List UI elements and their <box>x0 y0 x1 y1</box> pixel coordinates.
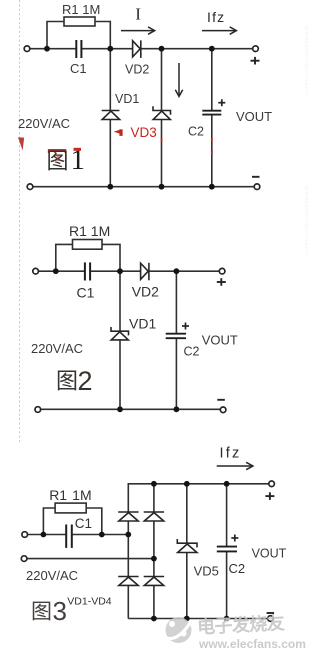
svg-text:VD2: VD2 <box>125 63 149 77</box>
plus polarity mark C2 (ckt3) <box>231 535 238 542</box>
svg-text:C2: C2 <box>184 345 200 359</box>
svg-text:www.elecfans.com: www.elecfans.com <box>303 184 308 255</box>
wire: R1 left riser (ckt3) <box>43 508 55 535</box>
electrolytic capacitor C2 (ckt2) <box>166 334 186 339</box>
electrolytic capacitor C2 (ckt1) <box>202 111 221 115</box>
svg-text:C1: C1 <box>70 61 87 76</box>
wire: ckt2 VD2 to + terminal <box>149 270 220 272</box>
svg-text:Ifz: Ifz <box>220 446 240 462</box>
svg-text:R1 1M: R1 1M <box>69 223 110 239</box>
wire: bridge right column top <box>153 484 155 512</box>
wire: ckt1 top line from left AC terminal to C1 <box>30 48 77 50</box>
wire: C2 branch vertical (ckt3) <box>226 484 228 546</box>
minus label at - output (ckt3) <box>267 612 275 614</box>
bridge diode lower-right (VD4) <box>144 577 164 586</box>
resistor R1 (ckt1) box <box>64 17 95 26</box>
svg-text:VD1-VD4: VD1-VD4 <box>67 596 112 608</box>
wire: ckt1 top line from C1 to VD2 anode <box>81 48 133 50</box>
diode VD1 (ckt1) shunt <box>102 111 120 120</box>
wire: R1 right riser <box>95 22 110 49</box>
plus polarity mark C2 (ckt1) <box>218 99 225 106</box>
svg-text:VD1: VD1 <box>129 316 156 332</box>
plus polarity mark C2 (ckt2) <box>182 323 189 330</box>
zener diode VD5 (ckt3) <box>177 539 197 553</box>
AC input terminal bottom-left (ckt2) <box>35 407 41 413</box>
svg-text:VD5: VD5 <box>194 564 219 579</box>
output terminal + (ckt2) <box>219 268 225 274</box>
downward current arrow between VD2 and C2 (ckt1) <box>175 63 182 96</box>
output terminal - (ckt2) <box>220 407 226 413</box>
wire: R1 left riser (ckt2) <box>56 244 73 271</box>
AC input terminal upper-left (ckt3) <box>22 532 28 538</box>
node dots ckt3 <box>41 481 230 621</box>
output terminal + (ckt1) <box>253 46 259 52</box>
capacitor C1 (ckt3) plates <box>66 525 72 548</box>
plus label at + output (ckt3) <box>265 492 274 500</box>
svg-text:VOUT: VOUT <box>236 109 272 124</box>
zener diode VD3 (ckt1) <box>153 106 171 119</box>
wire: VD5 branch vertical (ckt3) <box>186 484 188 543</box>
svg-text:www.elecfans.com: www.elecfans.com <box>198 637 306 651</box>
svg-text:C2: C2 <box>188 125 204 139</box>
bridge diode upper-right (VD2) <box>144 512 164 521</box>
AC input terminal top-left (ckt1) <box>24 46 30 52</box>
red specks on wires (ckt1) <box>161 138 213 154</box>
red pointer arrow before VD3 label <box>114 129 123 136</box>
wire: ckt2 C1 to VD2 <box>91 270 141 272</box>
svg-text:C1: C1 <box>77 285 95 301</box>
wire: ckt2 bottom rail <box>40 408 221 410</box>
resistor R1 (ckt2) box <box>73 240 103 250</box>
wire: ckt3 minus rail <box>128 618 268 620</box>
node dots ckt1 bottom rail <box>107 184 113 190</box>
svg-text:图: 图 <box>56 369 78 394</box>
AC input terminal bottom-left (ckt1) <box>27 184 33 190</box>
svg-text:R1 1M: R1 1M <box>49 487 91 503</box>
diode VD2 (ckt2) series rectifier <box>141 263 149 281</box>
wire: R1 right riser (ckt2) <box>102 244 120 271</box>
svg-text:220V/AC: 220V/AC <box>26 568 78 583</box>
node dots ckt1 top wire <box>44 46 215 190</box>
diode VD2 (ckt1) series rectifier <box>133 40 141 58</box>
plus label at + output (ckt1) <box>251 57 260 65</box>
svg-text:2: 2 <box>78 366 93 396</box>
svg-text:图: 图 <box>31 601 52 624</box>
red proofreading wedge mark (ckt1) <box>18 137 24 150</box>
bridge diode upper-left (VD1) <box>118 512 138 521</box>
watermark logo circle (elecfans) <box>165 617 192 643</box>
svg-text:www.elecfans.com: www.elecfans.com <box>303 24 308 95</box>
svg-text:Ifz: Ifz <box>207 9 224 25</box>
wire: bridge left column bottom <box>127 585 129 618</box>
svg-text:VOUT: VOUT <box>202 333 238 348</box>
wire: R1 left riser <box>47 22 64 49</box>
wire: lower AC line (ckt3) <box>27 558 154 560</box>
output terminal - (ckt3) <box>268 616 274 622</box>
svg-text:VD1: VD1 <box>115 92 139 106</box>
svg-text:C1: C1 <box>75 516 92 531</box>
wire: bridge left column middle <box>127 521 129 577</box>
zener diode VD1 (ckt2) <box>111 327 129 340</box>
svg-text:3: 3 <box>53 596 67 626</box>
dotted selection border left <box>19 0 21 444</box>
wire: C2 branch vertical (ckt2) <box>175 271 177 333</box>
svg-text:220V/AC: 220V/AC <box>31 341 83 356</box>
wire: VD1 branch vertical (ckt2) <box>119 271 121 331</box>
wire: upper AC line C1 to bridge left column (ckt3) <box>72 534 128 536</box>
AC input terminal top-left (ckt2) <box>33 268 39 274</box>
output terminal + (ckt3) <box>269 481 275 487</box>
wire: R1 right riser (ckt3) <box>86 508 102 535</box>
minus label at - output (ckt2) <box>217 399 225 401</box>
capacitor C1 (ckt2) plates <box>85 262 90 280</box>
bridge diode lower-left (VD3) <box>118 577 138 586</box>
plus label at + output (ckt2) <box>217 278 226 286</box>
wire: VD1 branch vertical <box>109 49 111 111</box>
wire: C2 branch vertical <box>211 49 213 110</box>
svg-text:220V/AC: 220V/AC <box>18 116 70 131</box>
svg-text:I: I <box>135 5 141 24</box>
wire: bridge right column middle <box>153 521 155 577</box>
svg-text:VD3: VD3 <box>131 125 157 140</box>
wire: bridge right column bottom <box>153 585 155 618</box>
wire: ckt1 bottom return rail <box>33 186 255 188</box>
output terminal - (ckt1) <box>254 184 260 190</box>
electrolytic capacitor C2 (ckt3) <box>217 547 237 552</box>
wire: upper AC line left terminal to C1 (ckt3) <box>27 534 65 536</box>
svg-text:VOUT: VOUT <box>252 547 287 561</box>
svg-text:VD2: VD2 <box>132 284 159 300</box>
wire: ckt2 top line left terminal to C1 <box>38 270 84 272</box>
resistor R1 (ckt3) box <box>55 503 86 513</box>
wire: ckt3 plus rail from bridge top to + terminal <box>128 484 269 512</box>
node dots ckt2 <box>53 268 179 412</box>
capacitor C1 (ckt1) plates <box>76 40 81 58</box>
wire: ckt1 top line from VD2 cathode to right + terminal <box>141 48 253 50</box>
svg-text:C2: C2 <box>229 561 246 576</box>
svg-text:R1 1M: R1 1M <box>62 2 100 17</box>
minus label at - output (ckt1) <box>252 176 260 178</box>
AC input terminal lower-left (ckt3) <box>21 556 27 562</box>
wire: VD3 branch vertical <box>161 49 163 111</box>
